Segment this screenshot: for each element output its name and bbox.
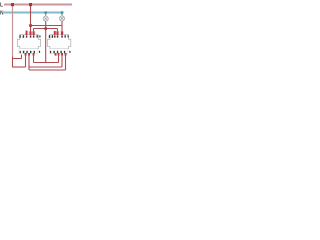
K2 bottom label 4 xyxy=(57,51,58,53)
junction at (30.5,25.5) xyxy=(29,24,32,27)
K1 top terminal wire-in x=30.5 xyxy=(29,31,31,35)
K2 top screw a xyxy=(54,35,55,37)
K1 top terminal wire-in x=33.5 xyxy=(33,31,35,35)
wire V29 down xyxy=(28,55,30,70)
K2 top arrow mark xyxy=(52,35,53,38)
K2 top screw c xyxy=(61,35,63,37)
wire H58 xyxy=(13,58,22,60)
K1 top terminal red stub x=26.5 xyxy=(26,31,28,35)
K2 bottom label 2 xyxy=(64,51,65,53)
lamp E1 xyxy=(43,16,48,21)
K2 top screw b xyxy=(57,35,59,37)
K1 bottom label 2 xyxy=(34,51,35,53)
K2 bottom label 1 xyxy=(50,51,51,53)
wire drop from L at x=12.5 upper xyxy=(12,5,14,57)
wire lamp E1 down the gap x=45.7 xyxy=(45,21,47,62)
wire V25.5 down xyxy=(25,55,27,67)
K1 top terminal tab xyxy=(29,32,35,35)
wire N rail xyxy=(4,12,64,14)
K1 top mark d xyxy=(37,35,38,37)
wire L rail xyxy=(4,4,72,6)
K1 top mark e xyxy=(39,35,40,37)
wire H70 xyxy=(29,69,66,71)
junction on L rail x=30.5 xyxy=(29,3,32,6)
lamp E2 xyxy=(59,16,64,21)
K1 bottom label 4 xyxy=(26,51,27,53)
junction on N rail x=62 xyxy=(61,11,63,14)
device K1 body xyxy=(17,35,40,49)
svg-text:L: L xyxy=(0,2,3,8)
K2 bottom red terminal c xyxy=(61,53,63,56)
K1 bottom arrow xyxy=(23,51,24,53)
K2 top label L xyxy=(49,35,50,38)
K1 bottom red terminal a xyxy=(25,53,27,56)
junction on N rail x=45.7 xyxy=(45,11,47,14)
K1 top arrow mark xyxy=(23,35,24,38)
wire H25 horizontal xyxy=(31,25,63,27)
K1 bottom red terminal c xyxy=(33,53,35,56)
K2 bottom red terminal a xyxy=(55,53,57,56)
junction on L rail x=12.5 xyxy=(11,3,14,6)
K2 top terminal wire-in x=57.5 xyxy=(56,31,58,35)
device K2 body xyxy=(48,35,71,49)
wire H67b xyxy=(29,66,62,68)
svg-text:N: N xyxy=(0,11,4,17)
K2 bottom arrow 2 xyxy=(60,51,61,53)
wire H67a xyxy=(12,66,26,68)
background xyxy=(0,0,75,75)
K1 bottom label 1 xyxy=(20,51,21,53)
K1 bottom arrow 2 xyxy=(30,51,31,53)
wire drop from L at x=12.5 lower xyxy=(12,57,14,68)
K1 bottom terminal strip xyxy=(19,49,38,54)
junction at (45.7,28.5) xyxy=(45,27,48,30)
K1 bottom mark f xyxy=(39,51,40,53)
wire V58.5 up xyxy=(58,55,60,63)
lamp E1 stub to N xyxy=(45,13,47,17)
K1 bottom red terminal b xyxy=(28,53,30,56)
K1 top screw a xyxy=(26,35,27,37)
K2 bottom arrow xyxy=(53,51,54,53)
wire H62 xyxy=(34,62,59,64)
wire right box terminal drop x=57.5 xyxy=(57,29,59,35)
wire stub terminal K1-1 to H58 xyxy=(21,55,23,59)
K2 bottom label 2b xyxy=(69,51,70,53)
K2 bottom red terminal d xyxy=(65,53,67,56)
K1 top screw b xyxy=(30,35,32,37)
K2 top terminal red stub x=54.5 xyxy=(54,31,56,35)
K2 bottom terminal strip xyxy=(49,49,67,54)
K2 top mark e xyxy=(68,35,69,37)
wire V65.5 up xyxy=(65,55,67,70)
wire V33.5 down xyxy=(33,55,35,63)
K2 bottom red terminal b xyxy=(58,53,60,56)
wire left box terminal drop x=33.5 xyxy=(33,29,35,35)
wire V62 up xyxy=(61,55,63,67)
K2 top terminal tab xyxy=(56,32,64,35)
K2 top mark d xyxy=(65,35,66,37)
K1 top label L xyxy=(20,35,21,38)
wire lamp E2 down to terminal x=62 xyxy=(61,21,63,35)
lamp E2 stub to N xyxy=(61,13,63,16)
K2 top terminal wire-in x=62 xyxy=(61,31,63,35)
wire drop from L at x=30.5 xyxy=(30,5,32,35)
wire H28 horizontal xyxy=(34,28,58,30)
K1 top screw c xyxy=(33,35,35,37)
